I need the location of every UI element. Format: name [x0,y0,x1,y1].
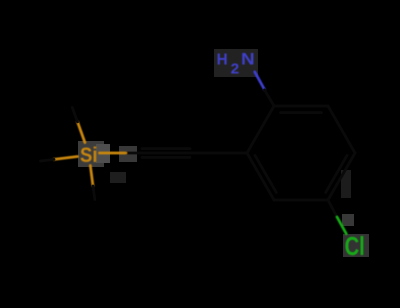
methyl bond left, gold half [54,157,78,160]
svg-text:N: N [241,50,255,69]
artifact band along ring bond C4-C5 [341,170,351,198]
bond alkyne carbon to Si, gold half [100,152,127,155]
methyl bond down, gold half [90,166,93,187]
bond ring C4 to Cl, dark half [328,200,337,217]
triple bond C≡C center line [139,152,193,155]
bond ring C4 to Cl, green half [337,217,346,234]
wire ring bond C4-C5 [328,153,355,200]
methyl bond up-left, gold half [78,122,85,143]
trimethylsilyl group [41,108,95,200]
wire aromatic inner line C2-C3 [255,155,276,192]
methyl bond left, dark half [41,159,55,161]
svg-text:Cl: Cl [345,231,365,261]
wire ring bond C2-C3 [247,153,274,200]
artifact box near Cl bond [342,214,354,226]
methyl bond up-left, dark half [72,108,77,122]
artifact box behind H2N [214,49,258,77]
artifact patch below alkyne [110,172,126,183]
svg-text:2: 2 [231,60,240,77]
methyl bond down, dark half [93,186,95,200]
chloro group [328,200,346,234]
svg-text:H: H [217,52,228,69]
wire aromatic inner line C4-C5 [326,155,347,192]
artifact box behind Si [78,141,104,167]
wire ring bond C1-C2 [247,106,274,153]
alkyne group [100,149,248,158]
bond N to ring C1, dark half [265,90,275,106]
bond N to ring C1, blue half [255,72,265,90]
wire ring bond C3-C4 [274,199,328,202]
wire bond ring C2 to alkyne carbon [193,152,247,155]
wire ring bond C5-C6 [328,106,355,153]
artifact box right of Si bond [119,146,137,162]
svg-text:Si: Si [80,144,98,167]
bond alkyne carbon to Si, dark half [126,152,139,155]
amine group [255,72,274,106]
wire aromatic inner line C6-C1 [281,111,322,114]
triple bond lower line [142,156,190,159]
wire ring bond C6-C1 [274,105,328,108]
benzene ring [247,106,355,200]
artifact box behind Cl [343,234,369,257]
triple bond upper line [142,147,190,150]
